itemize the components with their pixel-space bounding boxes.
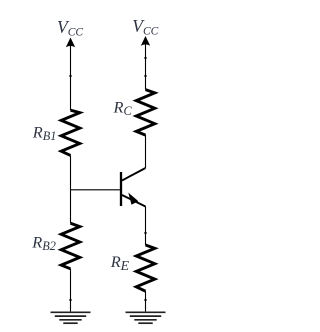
wire left rail top	[70, 45, 72, 111]
node joint dot left bottom	[69, 299, 71, 301]
resistor RB2	[61, 223, 80, 268]
transistor Q1 collector lead	[122, 168, 146, 181]
transistor Q1 emitter lead	[122, 195, 146, 207]
ground (right)	[126, 312, 166, 323]
node joint dot right top2	[144, 75, 146, 77]
transistor Q1 emitter arrow	[129, 194, 138, 204]
node joint dot right top	[144, 57, 146, 59]
VCC arrow (right)	[141, 36, 150, 46]
ground (left)	[51, 312, 91, 323]
VCC arrow (left)	[66, 38, 75, 48]
svg-text:RE: RE	[110, 252, 130, 273]
wire collector vertical	[145, 135, 147, 168]
svg-text:RC: RC	[113, 97, 133, 118]
svg-text:VCC: VCC	[57, 17, 83, 39]
resistor RB1	[61, 110, 80, 155]
node joint dot right bottom	[144, 299, 146, 301]
wire base horizontal	[71, 189, 120, 191]
transistor Q1 base bar	[120, 172, 122, 206]
svg-text:VCC: VCC	[132, 16, 158, 38]
svg-text:RB1: RB1	[32, 122, 57, 143]
wire right rail bottom	[145, 291, 147, 311]
resistor RC	[136, 90, 155, 136]
node joint dot left	[69, 75, 71, 77]
node joint dot emitter	[144, 232, 146, 234]
wire left rail bottom	[70, 269, 72, 312]
wire emitter vertical	[145, 207, 147, 246]
resistor RE	[136, 245, 155, 291]
wire right rail top	[145, 43, 147, 90]
wire left rail middle	[70, 155, 72, 223]
svg-text:RB2: RB2	[31, 232, 56, 253]
